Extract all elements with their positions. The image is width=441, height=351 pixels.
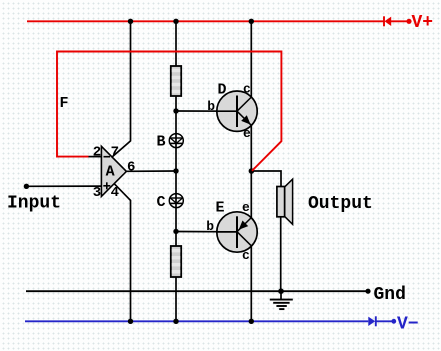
svg-text:F: F xyxy=(60,95,69,112)
svg-text:3: 3 xyxy=(93,185,101,201)
wire: D emitter to output node xyxy=(250,125,252,171)
wire: pin 2 lead xyxy=(89,156,102,158)
wire: V+ to D collector xyxy=(250,21,252,97)
junction: speaker / Gnd rail xyxy=(278,288,284,294)
wire: R2 to V- xyxy=(175,277,177,321)
node: input terminal dot xyxy=(24,184,29,189)
svg-text:2: 2 xyxy=(93,145,101,161)
resistor R2 xyxy=(171,246,181,277)
wire: op-amp pin 4 to V- xyxy=(114,184,130,322)
junction: V+ rail / pin7 supply wire xyxy=(128,19,133,24)
svg-text:Output: Output xyxy=(308,194,373,214)
svg-text:e: e xyxy=(242,200,250,215)
svg-text:e: e xyxy=(243,126,251,141)
wire: feedback F to pin 2 (red) xyxy=(57,52,281,171)
svg-text:Gnd: Gnd xyxy=(374,285,406,305)
wire: output node to speaker xyxy=(251,171,281,187)
diode C xyxy=(169,194,183,208)
transistor D (NPN) xyxy=(217,91,258,131)
junction: V- rail / pin4 supply wire xyxy=(128,319,133,324)
node: V- terminal dot xyxy=(391,319,396,324)
op-amp U-A xyxy=(101,146,126,196)
node: V+ terminal dot xyxy=(406,19,411,24)
svg-text:B: B xyxy=(157,134,166,151)
svg-text:c: c xyxy=(242,248,250,263)
wire: base lead of transistor E xyxy=(176,231,237,233)
resistor R1 xyxy=(171,66,181,96)
svg-text:b: b xyxy=(206,219,214,234)
V+ power rail (red) xyxy=(27,20,409,22)
wire: E collector to V- xyxy=(250,246,252,321)
wire: op-amp pin 7 to V+ xyxy=(112,21,131,157)
transistor E (PNP) xyxy=(217,212,258,252)
junction: V+ rail / Q-D collector xyxy=(249,19,254,24)
polarity diode on V+ rail xyxy=(384,16,391,26)
diode B xyxy=(169,134,183,148)
svg-text:4: 4 xyxy=(111,185,119,201)
junction: V- rail / R2 xyxy=(173,319,178,324)
svg-text:Input: Input xyxy=(7,194,61,214)
wire: speaker to ground xyxy=(280,217,282,291)
svg-text:c: c xyxy=(243,82,251,97)
svg-text:V+: V+ xyxy=(412,13,434,33)
wire: output node to E emitter xyxy=(250,171,252,218)
junction: V+ rail / R1 xyxy=(173,19,178,24)
Gnd rail xyxy=(26,290,368,292)
wire: V+ to R1 xyxy=(175,21,177,66)
wire: input to op-amp pin 3 xyxy=(26,185,101,187)
ground symbol xyxy=(270,291,293,309)
svg-text:6: 6 xyxy=(127,160,135,176)
junction: E base node / R2 top xyxy=(173,229,178,234)
svg-text:V−: V− xyxy=(397,315,419,335)
wire: R1 through diodes B,C to R2 (bias chain) xyxy=(175,96,177,246)
junction: R1 / D base node xyxy=(173,108,178,113)
svg-text:7: 7 xyxy=(111,145,119,161)
junction: V- rail / Q-E collector xyxy=(249,319,254,324)
node: Gnd terminal dot xyxy=(365,289,370,294)
junction: op-amp output node on bias chain xyxy=(173,168,178,173)
polarity diode on V- rail xyxy=(368,316,376,326)
junction: output node xyxy=(249,168,255,174)
svg-text:A: A xyxy=(106,164,115,181)
speaker LS1 xyxy=(277,179,293,224)
wire: op-amp pin 6 output xyxy=(126,170,176,172)
V- power rail (blue) xyxy=(25,320,394,322)
wire: base lead of transistor D xyxy=(176,110,237,112)
svg-text:C: C xyxy=(157,194,166,211)
svg-text:b: b xyxy=(207,99,215,114)
svg-text:D: D xyxy=(218,82,227,99)
svg-text:E: E xyxy=(216,200,225,217)
